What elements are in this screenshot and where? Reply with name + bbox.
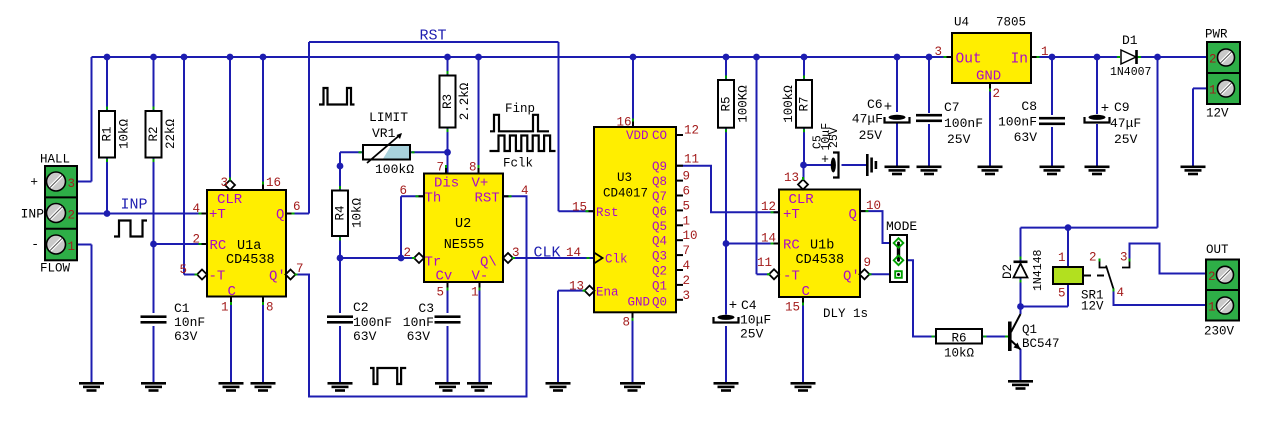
wire U1b -T tie <box>756 57 758 274</box>
svg-text:V-: V- <box>472 269 489 285</box>
svg-text:R7: R7 <box>798 96 812 111</box>
svg-text:1: 1 <box>68 240 76 254</box>
node junction <box>723 54 730 61</box>
wire C5 right <box>842 164 867 166</box>
svg-text:100nF: 100nF <box>998 115 1037 130</box>
svg-text:10kΩ: 10kΩ <box>944 347 975 361</box>
svg-text:1: 1 <box>221 301 229 315</box>
svg-text:Q': Q' <box>843 269 860 285</box>
svg-text:D2: D2 <box>1001 264 1015 279</box>
capacitor C2 <box>327 315 353 318</box>
capacitor C4 <box>718 315 735 320</box>
svg-text:Q: Q <box>849 207 857 223</box>
svg-text:-T: -T <box>209 269 226 285</box>
ground U2 V- <box>467 382 492 385</box>
svg-text:Out: Out <box>956 52 982 68</box>
waveform INP square <box>114 221 147 237</box>
wire contact4 to OUT1 <box>1114 290 1207 305</box>
svg-text:9: 9 <box>864 256 872 270</box>
svg-text:Cv: Cv <box>436 269 453 285</box>
connector PWR 12V <box>1207 42 1240 104</box>
svg-text:C6: C6 <box>867 97 883 112</box>
svg-text:+T: +T <box>783 207 800 223</box>
node junction <box>150 54 157 61</box>
svg-text:Q4: Q4 <box>652 235 667 249</box>
svg-text:16: 16 <box>266 176 281 190</box>
svg-text:1: 1 <box>1041 45 1049 59</box>
wire C8 <box>1051 57 1053 115</box>
ground hall <box>79 382 104 385</box>
svg-text:U1b: U1b <box>810 239 834 254</box>
wire Q9 to U1b +T <box>676 166 779 213</box>
wire relay coil bottom <box>1067 284 1069 307</box>
node junction <box>150 241 157 248</box>
svg-text:C1: C1 <box>174 301 190 316</box>
ground U3 GND <box>620 382 645 385</box>
svg-text:DLY 1s: DLY 1s <box>823 307 868 321</box>
svg-text:2: 2 <box>403 246 411 260</box>
svg-text:14: 14 <box>566 246 581 260</box>
wire U4 GND <box>989 83 991 166</box>
timer U2 NE555 <box>424 174 503 283</box>
connector OUT 230V <box>1206 260 1239 321</box>
waveform Fclk train <box>490 136 556 152</box>
svg-text:2.2kΩ: 2.2kΩ <box>458 82 472 120</box>
svg-text:C: C <box>802 284 810 300</box>
regulator U4 7805 <box>952 33 1031 83</box>
svg-text:Dis: Dis <box>434 176 459 192</box>
ground C3 <box>435 382 460 385</box>
svg-text:2: 2 <box>1208 270 1216 284</box>
ground C8 <box>1040 166 1065 169</box>
ground C9 <box>1085 166 1110 169</box>
svg-text:RC: RC <box>210 238 227 254</box>
wire D2 bottom <box>1020 278 1022 307</box>
svg-text:5: 5 <box>1058 287 1066 301</box>
wire C9 <box>1096 57 1098 114</box>
svg-text:4: 4 <box>192 202 200 216</box>
wire CLK net <box>513 257 594 259</box>
svg-text:GND: GND <box>627 296 650 310</box>
resistor R4 <box>332 191 348 237</box>
transistor Q1 BC547 <box>1008 322 1012 352</box>
svg-text:Finp: Finp <box>505 102 535 116</box>
resistor R1 <box>99 111 115 158</box>
svg-text:RST: RST <box>475 191 500 207</box>
capacitor C5 <box>831 158 836 173</box>
svg-text:Q6: Q6 <box>652 205 667 219</box>
ground C6 <box>885 166 910 169</box>
wire C7 gnd <box>928 124 930 166</box>
svg-text:-: - <box>31 237 39 252</box>
svg-text:BC547: BC547 <box>1022 337 1060 351</box>
node junction <box>1049 54 1056 61</box>
node junction <box>260 54 267 61</box>
diode D2 1N4148 <box>1014 261 1028 264</box>
wire R4 <box>339 166 341 191</box>
wire R7 top <box>803 57 805 80</box>
wire <box>106 158 108 214</box>
svg-text:1N4148: 1N4148 <box>1032 249 1045 291</box>
svg-text:R5: R5 <box>720 96 734 111</box>
svg-text:63V: 63V <box>1014 130 1038 145</box>
svg-text:2: 2 <box>192 233 200 247</box>
svg-text:8: 8 <box>622 316 630 330</box>
svg-text:10: 10 <box>683 229 698 243</box>
ground U4 <box>978 166 1003 169</box>
svg-text:8: 8 <box>266 301 274 315</box>
wire C2 gnd <box>339 326 341 382</box>
svg-text:R2: R2 <box>147 126 161 141</box>
wire -T tie high <box>183 57 185 275</box>
svg-text:C7: C7 <box>944 100 960 115</box>
node junction <box>894 54 901 61</box>
svg-text:RST: RST <box>420 28 447 45</box>
svg-text:7: 7 <box>683 244 691 258</box>
svg-text:47μF: 47μF <box>852 112 883 127</box>
svg-text:16: 16 <box>616 116 631 130</box>
node junction <box>475 54 482 61</box>
svg-text:22kΩ: 22kΩ <box>164 119 178 150</box>
svg-text:C9: C9 <box>1114 100 1130 115</box>
svg-text:Clk: Clk <box>605 253 628 267</box>
svg-text:Q5: Q5 <box>652 220 667 234</box>
svg-text:CD4538: CD4538 <box>796 253 845 268</box>
svg-text:C3: C3 <box>418 301 434 316</box>
svg-text:100kΩ: 100kΩ <box>782 85 796 123</box>
wire relay coil top <box>1067 228 1069 267</box>
svg-text:47μF: 47μF <box>1110 116 1141 131</box>
resistor R2 <box>146 111 162 158</box>
svg-text:Fclk: Fclk <box>503 157 533 171</box>
svg-text:4: 4 <box>683 259 691 273</box>
connector HALL/FLOW <box>45 166 77 260</box>
svg-text:3: 3 <box>934 45 942 59</box>
resistor R6 <box>936 329 982 344</box>
svg-text:MODE: MODE <box>886 219 917 234</box>
wire R3 bottom <box>447 128 449 174</box>
svg-text:R1: R1 <box>101 126 115 141</box>
relay SR1 12V <box>1053 267 1083 284</box>
svg-text:3: 3 <box>1120 251 1128 265</box>
capacitor C3 <box>435 315 461 318</box>
svg-text:100KΩ: 100KΩ <box>737 85 751 123</box>
svg-text:CD4017: CD4017 <box>603 187 648 201</box>
wire R4 bottom to Tr <box>339 236 341 258</box>
svg-text:+: + <box>884 100 892 116</box>
svg-text:13: 13 <box>569 280 584 294</box>
wire RC net <box>154 243 208 245</box>
node junction <box>1154 54 1161 61</box>
svg-text:7: 7 <box>436 161 444 175</box>
node junction <box>1065 224 1072 231</box>
svg-text:+T: +T <box>209 207 226 223</box>
wire D1 to PWR <box>1137 56 1207 58</box>
svg-text:2: 2 <box>68 209 76 223</box>
wire <box>77 213 207 215</box>
node junction <box>181 54 188 61</box>
svg-text:-T: -T <box>783 269 800 285</box>
node junction <box>800 162 807 169</box>
svg-text:NE555: NE555 <box>444 238 485 253</box>
node junction <box>723 240 730 247</box>
ground Ena <box>546 382 571 385</box>
svg-text:+: + <box>1101 101 1109 117</box>
svg-text:7: 7 <box>296 262 304 276</box>
wire C2 <box>339 258 341 313</box>
svg-text:10kΩ: 10kΩ <box>351 198 365 229</box>
svg-text:2: 2 <box>1089 251 1097 265</box>
svg-text:R6: R6 <box>951 332 966 346</box>
svg-text:1: 1 <box>471 286 479 300</box>
svg-text:Q': Q' <box>269 269 286 285</box>
svg-text:LIMIT: LIMIT <box>369 110 408 125</box>
ground PWR <box>1181 166 1206 169</box>
svg-text:3: 3 <box>512 246 520 260</box>
wire C3 gnd <box>447 326 449 382</box>
wire <box>153 326 155 382</box>
wire R6 to Q1 <box>982 336 1006 338</box>
svg-text:Th: Th <box>425 191 442 207</box>
wire U2 Cv to C3 <box>447 282 449 313</box>
svg-text:5: 5 <box>683 199 691 213</box>
wire vcc top bus <box>92 56 953 58</box>
svg-text:Rst: Rst <box>596 206 619 220</box>
svg-text:VR1: VR1 <box>372 126 396 141</box>
svg-text:63V: 63V <box>353 329 377 344</box>
svg-text:Q1: Q1 <box>1022 323 1037 337</box>
wire C6 gnd <box>896 123 898 166</box>
ground C2 <box>328 382 353 385</box>
node junction <box>1094 54 1101 61</box>
svg-text:100kΩ: 100kΩ <box>375 162 414 177</box>
wire U3 GND pin8 <box>632 312 634 382</box>
wire D2 top <box>1020 228 1022 261</box>
wire VR1 left <box>340 151 363 153</box>
potentiometer VR1 <box>363 145 410 160</box>
node junction <box>104 54 111 61</box>
wire U3 VDD <box>632 57 634 127</box>
svg-text:Q3: Q3 <box>652 250 667 264</box>
resistor R5 <box>718 80 734 128</box>
capacitor C1 <box>141 315 167 318</box>
svg-text:VDD: VDD <box>626 129 649 143</box>
wire C6 top <box>896 57 898 112</box>
svg-text:V+: V+ <box>472 176 489 192</box>
svg-text:3: 3 <box>220 176 228 190</box>
svg-text:U1a: U1a <box>237 239 261 254</box>
svg-text:13: 13 <box>784 171 799 185</box>
svg-text:11: 11 <box>684 153 699 167</box>
ground C1 <box>141 382 166 385</box>
svg-text:CD4538: CD4538 <box>226 253 275 268</box>
wire U1b C gnd <box>802 297 804 382</box>
node junction <box>227 54 234 61</box>
wire Q1 collector <box>1020 307 1022 315</box>
capacitor C6 <box>889 115 906 120</box>
svg-text:OUT: OUT <box>1206 243 1229 257</box>
svg-text:3: 3 <box>683 289 691 303</box>
svg-text:CO: CO <box>652 129 667 143</box>
capacitor C8 <box>1039 117 1065 120</box>
svg-text:Q7: Q7 <box>652 190 667 204</box>
svg-text:1: 1 <box>1208 301 1216 315</box>
wire VR1 right <box>410 151 448 153</box>
svg-text:U4: U4 <box>954 16 969 30</box>
svg-text:Q9: Q9 <box>652 160 667 174</box>
wire <box>153 244 155 313</box>
svg-text:1: 1 <box>683 214 691 228</box>
ground U1b C <box>791 382 816 385</box>
wire RST net <box>309 41 559 43</box>
wire Th branch <box>400 196 402 258</box>
svg-text:230V: 230V <box>1204 325 1235 339</box>
svg-text:D1: D1 <box>1122 33 1138 48</box>
svg-text:C: C <box>228 284 236 300</box>
svg-text:Q1: Q1 <box>652 279 667 293</box>
ground C5 side <box>866 154 869 176</box>
wire <box>77 244 92 246</box>
svg-text:10nF: 10nF <box>403 315 434 330</box>
svg-text:12: 12 <box>761 200 776 214</box>
svg-text:U2: U2 <box>455 217 471 232</box>
svg-text:9: 9 <box>683 170 691 184</box>
wire U3 Ena gnd <box>558 290 585 292</box>
svg-text:+: + <box>30 175 38 190</box>
wire PWR pin1 gnd <box>1193 87 1207 89</box>
svg-text:8: 8 <box>469 161 477 175</box>
svg-text:Q8: Q8 <box>652 175 667 189</box>
svg-text:25V: 25V <box>947 132 971 147</box>
svg-text:C8: C8 <box>1021 99 1037 114</box>
ground U1a pin1 <box>219 382 244 385</box>
svg-text:15: 15 <box>785 301 800 315</box>
wire <box>153 57 155 111</box>
svg-text:Q: Q <box>276 207 284 223</box>
wire U1a pin8 gnd <box>262 297 264 383</box>
svg-text:1N4007: 1N4007 <box>1110 66 1151 79</box>
svg-text:Ena: Ena <box>596 286 619 300</box>
wire U2 V+ <box>478 57 480 174</box>
wire contact3 to OUT2 <box>1130 244 1207 274</box>
svg-text:CLR: CLR <box>789 192 815 208</box>
ground U1a pin8 <box>251 382 276 385</box>
svg-text:2: 2 <box>1209 53 1217 67</box>
waveform flow pulses <box>319 88 355 105</box>
wire U2 V- gnd <box>479 282 481 382</box>
capacitor C7 <box>916 114 942 117</box>
svg-text:Q0: Q0 <box>652 296 667 310</box>
svg-text:12: 12 <box>684 124 699 138</box>
svg-text:+: + <box>729 298 737 314</box>
node junction <box>444 54 451 61</box>
resistor R3 <box>440 76 456 128</box>
svg-text:INP: INP <box>21 207 45 222</box>
svg-text:CLK: CLK <box>534 245 561 262</box>
svg-text:12V: 12V <box>1206 107 1229 121</box>
svg-text:1: 1 <box>1058 251 1066 265</box>
wire CLR U1b <box>803 165 805 180</box>
node junction <box>630 54 637 61</box>
wire U4 In to D1 <box>1031 56 1120 58</box>
wire 12V rail <box>1157 57 1159 228</box>
wire R5 top <box>725 57 727 80</box>
svg-text:Q2: Q2 <box>652 265 667 279</box>
svg-text:14: 14 <box>761 232 776 246</box>
node junction <box>398 255 405 262</box>
svg-text:+: + <box>821 152 829 167</box>
wire R5 bottom to RC <box>725 128 727 244</box>
svg-text:100nF: 100nF <box>353 315 392 330</box>
wire U1b Q' to MODE <box>870 273 891 275</box>
svg-text:25V: 25V <box>828 127 841 148</box>
node junction <box>753 54 760 61</box>
svg-text:100nF: 100nF <box>944 116 983 131</box>
wire C4 <box>725 244 727 315</box>
wire MODE to R6 <box>907 260 936 336</box>
waveform Q' low pulses <box>370 368 406 384</box>
svg-text:10kΩ: 10kΩ <box>118 119 132 150</box>
resistor R7 <box>796 80 812 128</box>
svg-text:25V: 25V <box>1114 132 1138 147</box>
node junction <box>444 149 451 156</box>
IC U1a CD4538 monostable <box>207 190 286 297</box>
svg-text:C2: C2 <box>353 300 369 315</box>
wire <box>153 158 155 245</box>
svg-text:4: 4 <box>521 184 529 198</box>
svg-text:U3: U3 <box>617 171 632 185</box>
wire C4 gnd <box>725 326 727 382</box>
svg-text:10μF: 10μF <box>740 313 771 328</box>
svg-text:63V: 63V <box>174 329 198 344</box>
svg-text:GND: GND <box>976 69 1001 85</box>
wire CLR U1a <box>229 57 231 181</box>
svg-text:10nF: 10nF <box>174 315 205 330</box>
diode D1 1N4007 <box>1121 50 1136 64</box>
svg-text:11: 11 <box>757 256 772 270</box>
svg-text:25V: 25V <box>740 327 764 342</box>
wire <box>106 57 108 111</box>
node junction <box>337 163 344 170</box>
svg-text:10: 10 <box>866 199 881 213</box>
svg-text:2: 2 <box>993 87 1001 101</box>
capacitor C9 <box>1089 115 1106 120</box>
node junction <box>104 210 111 217</box>
wire Q to RST <box>286 213 309 215</box>
wire pin16 U1a <box>262 57 264 190</box>
counter U3 CD4017 <box>594 127 676 312</box>
wire R7 bottom <box>803 128 805 165</box>
svg-text:63V: 63V <box>407 329 431 344</box>
node junction <box>926 54 933 61</box>
svg-text:7805: 7805 <box>996 16 1026 30</box>
ground C4 <box>714 382 739 385</box>
svg-text:C4: C4 <box>741 298 757 313</box>
svg-text:R4: R4 <box>334 205 348 220</box>
svg-text:FLOW: FLOW <box>40 262 71 276</box>
node junction <box>801 54 808 61</box>
svg-text:25V: 25V <box>859 128 883 143</box>
svg-text:6: 6 <box>293 200 301 214</box>
ground C7 <box>917 166 942 169</box>
svg-text:In: In <box>1011 52 1028 68</box>
wire C5 left <box>804 164 832 166</box>
svg-text:PWR: PWR <box>1205 28 1228 42</box>
wire Q' to U2 RST <box>296 196 527 396</box>
ground Q1 <box>1008 380 1033 383</box>
connector MODE <box>890 235 907 282</box>
wire C7 top <box>928 57 930 113</box>
